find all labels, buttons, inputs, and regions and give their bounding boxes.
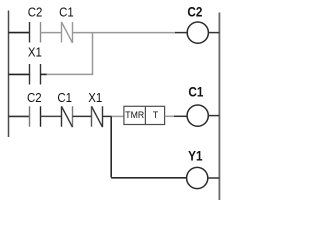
contact C1 (NC) rung 2 [62, 106, 73, 127]
wire rung2: C1 to X1 [73, 115, 92, 117]
wire rung1: rail to contact C2 [9, 32, 30, 34]
wire rung2: X1 to junction [103, 115, 112, 117]
svg-text:X1: X1 [88, 90, 102, 105]
svg-text:C1: C1 [188, 85, 203, 100]
wire rung2: coil C1 to right rail [208, 115, 219, 117]
timer TMR T box [124, 106, 165, 124]
svg-text:C1: C1 [57, 90, 72, 105]
contact X1 (NO) parallel branch [30, 64, 41, 85]
wire rung2: rail to contact C2 [9, 115, 30, 117]
wire rung1: to coil C2 (dark part) [175, 32, 187, 34]
coil C2 [187, 22, 208, 43]
coil C1 [187, 105, 208, 126]
svg-text:TMR: TMR [125, 110, 144, 120]
svg-text:Y1: Y1 [188, 149, 202, 164]
wire rung1: C1 to coil C2 (gray part) [73, 32, 176, 34]
wire X1 branch: rail to contact X1 [9, 73, 30, 75]
right power rail [218, 13, 220, 201]
svg-text:T: T [153, 110, 159, 120]
contact C2 (NO) rung 1 [30, 22, 41, 43]
svg-text:X1: X1 [28, 45, 42, 60]
wire Y1 branch: horizontal to coil Y1 [111, 177, 187, 179]
wire X1 branch: contact to junction (dark stub) [41, 73, 48, 75]
wire rung2: C2 to C1 [41, 115, 62, 117]
wire Y1 branch: coil Y1 to right rail [208, 177, 220, 179]
svg-text:C2: C2 [27, 90, 42, 105]
wire rung2: timer box to coil C1 (gray part) [165, 115, 175, 117]
wire rung1: C2 to C1 [41, 32, 62, 34]
wire rung2: junction to timer box [111, 115, 124, 117]
contact X1 (NC) rung 2 [92, 106, 103, 127]
contact C1 (NC) rung 1 [62, 22, 73, 43]
contact C2 (NO) rung 2 [30, 106, 41, 126]
left power rail [8, 11, 10, 138]
coil Y1 [187, 167, 208, 188]
svg-text:C2: C2 [28, 5, 43, 20]
wire X1 branch: stub to junction [47, 73, 94, 75]
wire Y1 branch: junction drop [110, 116, 112, 177]
wire rung1: coil C2 to right rail [208, 32, 219, 34]
wire rung2: to coil C1 (dark part) [174, 115, 187, 117]
svg-text:C1: C1 [59, 5, 74, 20]
wire junction riser to rung1 [92, 33, 94, 75]
svg-text:C2: C2 [187, 5, 202, 20]
